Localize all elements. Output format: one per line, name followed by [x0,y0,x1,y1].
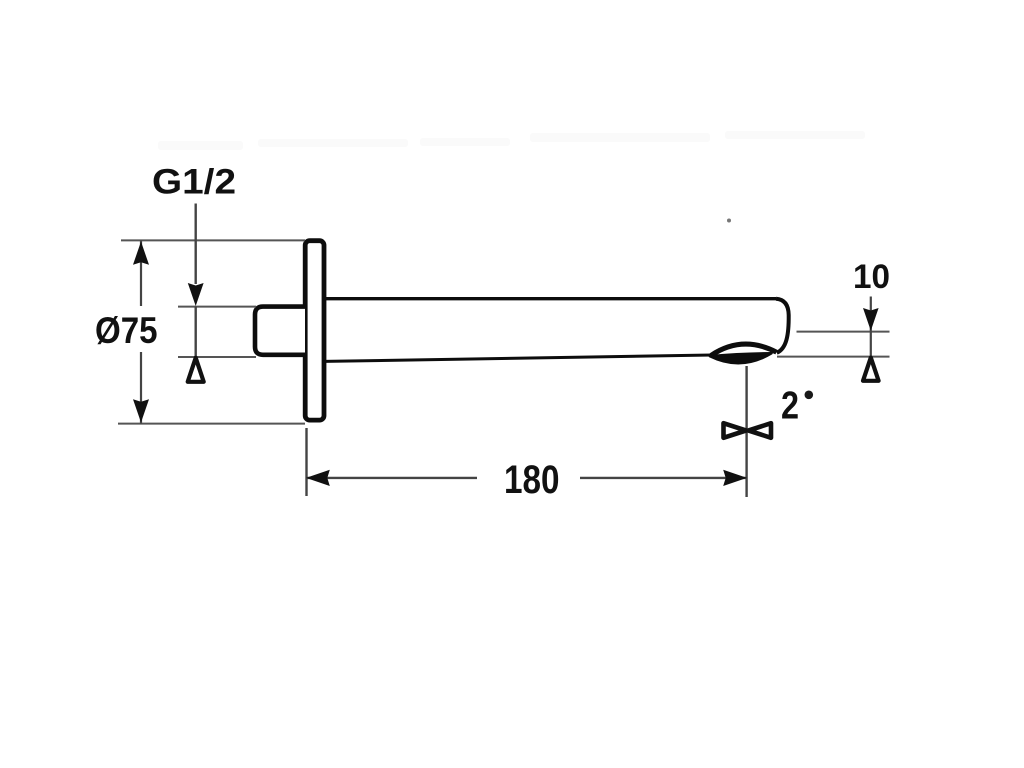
G1/2 leader line upper [194,204,196,285]
10 dim vertical line [870,297,872,378]
svg-text:Ø75: Ø75 [95,309,158,351]
180 left arrow (filled, pointing left) [306,470,330,486]
svg-text:180: 180 [504,458,560,502]
flange top extension line [121,239,305,241]
aerator bump arc [711,344,777,355]
10 dim lower horizontal line [777,356,890,358]
2deg bowtie left arrow (open, pointing right) [724,423,747,438]
10 dim upper horizontal line [797,331,890,333]
180 right arrow (filled, pointing right) [723,470,747,486]
nipple bottom extension line [178,356,256,358]
dia75 dimension line upper segment [140,240,142,306]
spout bottom edge [325,355,712,361]
G1/2 leader line middle [194,307,196,357]
degree dot [805,391,814,400]
wall flange [305,241,324,420]
aerator dark band [710,353,772,363]
nipple top extension line [178,306,256,308]
faint ghost scan text row [158,131,865,150]
svg-text:G1/2: G1/2 [152,163,236,202]
spout tip vertical line [745,366,747,497]
10 bottom arrow (up, open) [863,358,879,381]
G1/2 bottom arrow (up, open) [188,358,204,382]
spout top edge [323,297,776,300]
G1/2 top arrow (down, filled with notch) [188,283,204,306]
10 top arrow (down, filled with notch) [863,308,879,331]
dia75 top arrow (up, filled with notch) [133,242,149,265]
dia75 bottom arrow (down, filled with notch) [133,399,149,422]
G1/2 inlet nipple [255,307,305,355]
svg-text:10: 10 [853,258,890,296]
dia75 dimension line lower segment [140,352,142,424]
180 dimension line left segment [307,477,478,479]
spout right end outline [776,299,789,353]
flange bottom extension line [118,423,305,425]
svg-text:2: 2 [781,385,799,428]
180 dimension line right segment [580,477,747,479]
stray dot artifact [727,219,731,223]
flange bottom drop extension line [305,428,307,496]
2deg bowtie right arrow (open, pointing left) [749,423,772,438]
